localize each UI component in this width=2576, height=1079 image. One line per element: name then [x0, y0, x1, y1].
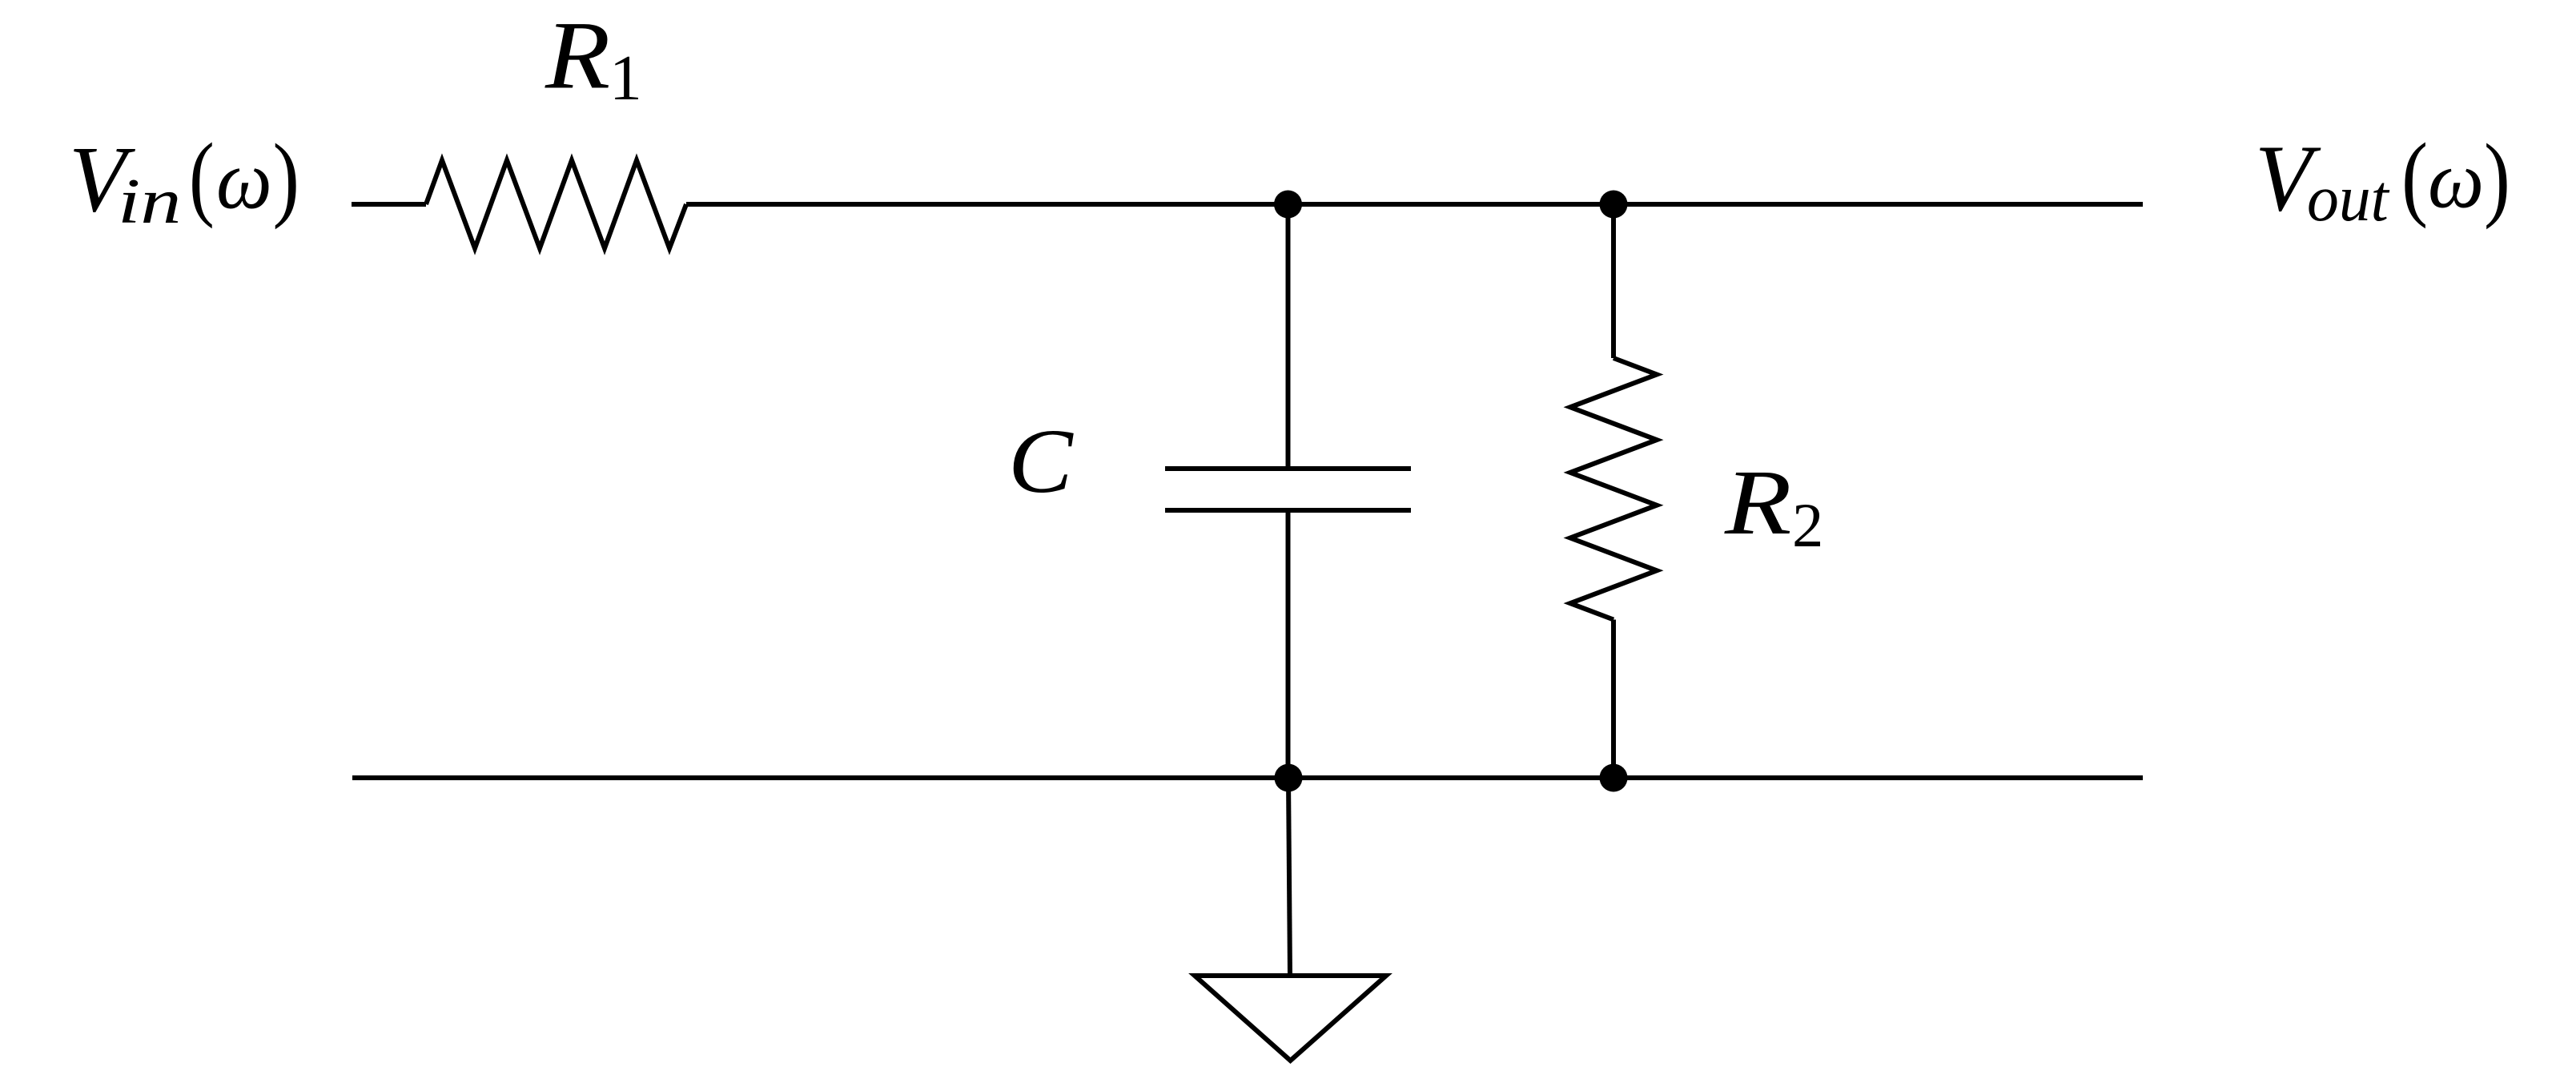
wire capacitor top lead [1286, 204, 1291, 469]
resistor R2 [1570, 358, 1657, 620]
svg-text:(: ( [2401, 124, 2428, 229]
wire R2 top lead [1611, 204, 1616, 358]
svg-text:R: R [1724, 451, 1792, 554]
wire ground stem [1288, 778, 1290, 976]
node Vout label [2255, 124, 2510, 235]
svg-text:): ) [2484, 124, 2510, 230]
svg-text:ω: ω [216, 134, 272, 227]
svg-text:ω: ω [2428, 134, 2484, 224]
svg-text:(: ( [189, 124, 215, 229]
svg-text:C: C [1008, 411, 1074, 512]
resistor R2 label [1724, 451, 1823, 559]
svg-text:): ) [273, 124, 300, 230]
resistor R1 label [545, 2, 642, 114]
resistor R1 [426, 160, 686, 248]
svg-text:2: 2 [1792, 490, 1823, 560]
node Vin label [69, 124, 299, 236]
capacitor C top plate [1165, 466, 1411, 471]
ground [1195, 976, 1386, 1061]
wire input stub [352, 202, 426, 207]
wire bottom rail [352, 775, 2143, 780]
capacitor C bottom plate [1165, 508, 1411, 513]
wire R2 bottom lead [1611, 620, 1616, 779]
node top junction at R2 [1600, 191, 1628, 219]
node bottom junction at R2 [1600, 764, 1628, 792]
wire top rail to output [686, 202, 2143, 207]
svg-text:out: out [2307, 162, 2390, 236]
node bottom junction at capacitor [1275, 764, 1303, 792]
svg-text:R: R [545, 2, 610, 109]
svg-text:in: in [118, 165, 181, 236]
capacitor C label [1008, 411, 1074, 512]
node top junction at capacitor [1274, 191, 1302, 219]
wire capacitor bottom lead [1286, 510, 1291, 778]
svg-text:1: 1 [609, 43, 642, 114]
